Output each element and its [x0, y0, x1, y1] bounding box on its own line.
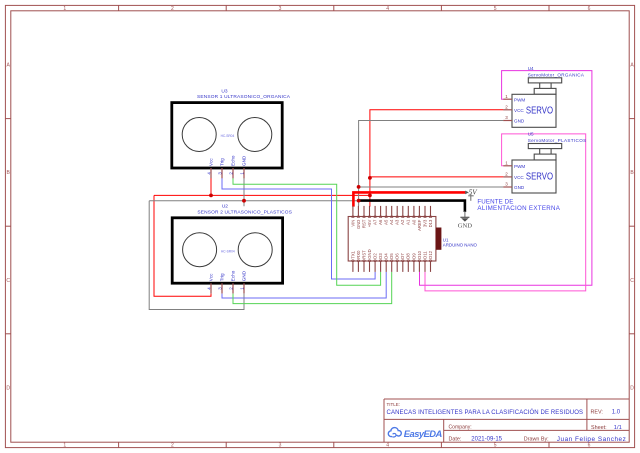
servo motor U4 (ServoMotor_ORGANICA)	[503, 66, 585, 127]
wire: U2 GND loop to GND bus	[149, 201, 244, 310]
wire: U1 GND pin up to U4 GND	[359, 121, 504, 207]
wire: U2 Trig to U1 D4 (blue)	[222, 272, 386, 298]
svg-text:U3: U3	[221, 88, 227, 94]
svg-text:4: 4	[386, 6, 389, 12]
svg-text:GND: GND	[514, 185, 525, 190]
svg-text:3: 3	[505, 182, 508, 187]
wire: U1 +5V pin up to U4 VCC	[370, 110, 504, 207]
svg-text:2: 2	[171, 443, 174, 449]
wire: +5V bus (sensors Vcc to U1 +5V pin)	[154, 194, 370, 196]
svg-text:Date:: Date:	[449, 437, 462, 443]
wire: U1 VIN to external +5V (thick red)	[353, 192, 465, 206]
svg-text:1/1: 1/1	[614, 425, 622, 431]
svg-text:A: A	[7, 63, 11, 69]
svg-text:CANECAS INTELIGENTES PARA LA C: CANECAS INTELIGENTES PARA LA CLASIFICACI…	[387, 409, 584, 416]
U1 usb connector	[436, 228, 442, 250]
svg-text:1.0: 1.0	[612, 410, 621, 416]
svg-text:Juan Felipe Sanchez: Juan Felipe Sanchez	[557, 436, 626, 443]
svg-text:Vcc: Vcc	[209, 158, 214, 166]
svg-text:5: 5	[494, 6, 497, 12]
wire: U3 GND down to GND bus	[243, 178, 245, 207]
svg-text:1: 1	[63, 443, 66, 449]
svg-text:5V: 5V	[469, 188, 479, 196]
junction (358.6,186.9)	[357, 185, 361, 189]
svg-text:Drawn By:: Drawn By:	[524, 437, 549, 443]
svg-text:D2: D2	[373, 253, 378, 259]
svg-text:C: C	[6, 278, 10, 284]
svg-text:ServoMotor_ORGANICA: ServoMotor_ORGANICA	[528, 72, 585, 77]
wire: GND bus (sensors)	[149, 200, 358, 202]
svg-text:D5: D5	[389, 253, 394, 259]
svg-text:+5V: +5V	[367, 220, 372, 228]
svg-text:D10: D10	[417, 250, 422, 258]
svg-text:3: 3	[279, 6, 282, 12]
junction (244,200.7)	[242, 199, 246, 203]
ultrasonic sensor U3 (SENSOR 1 ULTRASONICO_ORGANICA)	[172, 88, 291, 178]
svg-text:B: B	[7, 170, 11, 176]
svg-text:3V3: 3V3	[422, 219, 427, 227]
svg-text:Trig: Trig	[220, 158, 225, 166]
svg-text:VCC: VCC	[514, 175, 524, 180]
EasyEDA logo	[388, 428, 442, 439]
wire: GND to external GND flag (thick black)	[359, 201, 465, 212]
svg-text:ARDUINO NANO: ARDUINO NANO	[443, 242, 478, 247]
wire: U2 Echo to U1 D5 (green)	[233, 272, 392, 304]
svg-text:2: 2	[505, 105, 508, 110]
svg-text:D3: D3	[378, 253, 383, 259]
svg-text:SENSOR 1 ULTRASONICO_ORGANICA: SENSOR 1 ULTRASONICO_ORGANICA	[197, 94, 291, 100]
wire: +5V branch to U5 VCC	[370, 176, 504, 178]
svg-text:2021-09-15: 2021-09-15	[471, 437, 502, 443]
svg-text:U5: U5	[528, 132, 534, 137]
svg-text:D9: D9	[411, 253, 416, 259]
svg-text:EasyEDA: EasyEDA	[404, 428, 443, 439]
svg-text:B: B	[630, 170, 634, 176]
svg-text:GND: GND	[242, 270, 247, 281]
svg-text:AREF: AREF	[417, 219, 422, 231]
svg-text:GND: GND	[242, 155, 247, 166]
junction (211,195.4)	[209, 194, 213, 198]
junction (358.6,200.6)	[357, 199, 361, 203]
svg-text:D7: D7	[400, 253, 405, 259]
svg-text:A3: A3	[395, 219, 400, 225]
title block	[384, 399, 629, 442]
svg-text:RST: RST	[361, 219, 366, 228]
junction (369.9,177.9)	[368, 176, 372, 180]
svg-text:A7: A7	[373, 219, 378, 225]
svg-text:RX0: RX0	[356, 250, 361, 259]
ultrasonic sensor U2 (SENSOR 2 ULTRASONICO_PLASTICOS)	[172, 204, 292, 294]
wire: U5 PWM to U1 D11 (pink)	[425, 134, 586, 291]
svg-text:RST: RST	[361, 250, 366, 259]
svg-text:D11: D11	[422, 251, 427, 259]
svg-text:A5: A5	[384, 219, 389, 225]
svg-text:1: 1	[63, 6, 66, 12]
wire: GND branch to U5 GND	[359, 186, 504, 188]
svg-text:2: 2	[505, 172, 508, 177]
svg-text:SENSOR 2 ULTRASONICO_PLASTICOS: SENSOR 2 ULTRASONICO_PLASTICOS	[197, 209, 292, 215]
svg-text:HC-SR04: HC-SR04	[221, 249, 235, 253]
servo motor U5 (ServoMotor_PLASTICOS)	[503, 132, 586, 193]
svg-text:A2: A2	[400, 219, 405, 225]
svg-text:D13: D13	[428, 219, 433, 227]
svg-text:4: 4	[386, 443, 389, 449]
svg-text:VCC: VCC	[514, 108, 524, 113]
svg-text:2: 2	[171, 6, 174, 12]
wire: U2 Vcc loop to +5V bus	[154, 195, 211, 296]
svg-text:D: D	[630, 385, 634, 391]
svg-text:1: 1	[505, 94, 508, 99]
svg-text:GND: GND	[514, 119, 525, 124]
junction (369.9,195.4)	[368, 194, 372, 198]
wire: U3 Vcc to +5V bus	[210, 178, 212, 196]
svg-text:U4: U4	[528, 66, 534, 71]
svg-text:A6: A6	[378, 219, 383, 225]
wire: U3 Echo to U1 D3 (green)	[233, 178, 381, 285]
ground (external GND flag)	[458, 211, 473, 229]
svg-text:D12: D12	[428, 250, 433, 258]
svg-text:SERVO: SERVO	[526, 171, 553, 182]
wire: U4 PWM to U1 D10 (magenta)	[420, 71, 592, 286]
svg-text:PWM: PWM	[514, 97, 525, 102]
svg-text:5: 5	[494, 443, 497, 449]
svg-text:GND: GND	[458, 222, 473, 229]
svg-text:GND: GND	[367, 249, 372, 258]
svg-text:A4: A4	[389, 219, 394, 225]
svg-text:ALIMENTACION EXTERNA: ALIMENTACION EXTERNA	[477, 205, 560, 212]
svg-text:U2: U2	[222, 204, 228, 210]
svg-text:VIN: VIN	[350, 220, 355, 227]
svg-text:GND: GND	[356, 220, 361, 229]
svg-text:D8: D8	[406, 253, 411, 259]
svg-text:1: 1	[505, 161, 508, 166]
svg-text:3: 3	[505, 115, 508, 120]
svg-text:6: 6	[588, 443, 591, 449]
svg-text:C: C	[630, 278, 634, 284]
+5V power flag (FUENTE)	[465, 188, 478, 200]
svg-text:TX1: TX1	[350, 250, 355, 258]
svg-text:D: D	[6, 385, 10, 391]
svg-text:3: 3	[279, 443, 282, 449]
wire: U3 Trig to U1 D2 (blue)	[222, 178, 375, 279]
svg-text:HC-SR04: HC-SR04	[221, 134, 235, 138]
svg-text:A: A	[630, 63, 634, 69]
svg-text:Vcc: Vcc	[209, 273, 214, 281]
svg-text:ServoMotor_PLASTICOS: ServoMotor_PLASTICOS	[528, 138, 587, 143]
svg-text:Echo: Echo	[231, 155, 236, 166]
svg-text:Trig: Trig	[220, 273, 225, 281]
svg-text:Company:: Company:	[449, 424, 472, 430]
svg-text:D4: D4	[384, 253, 389, 259]
arduino nano U1	[348, 206, 477, 272]
svg-text:D6: D6	[395, 253, 400, 259]
svg-text:A0: A0	[411, 219, 416, 225]
svg-text:SERVO: SERVO	[526, 106, 553, 117]
svg-text:Sheet:: Sheet:	[591, 425, 607, 431]
svg-text:TITLE:: TITLE:	[387, 402, 401, 407]
svg-text:A1: A1	[406, 219, 411, 225]
svg-text:6: 6	[588, 6, 591, 12]
svg-text:REV:: REV:	[591, 410, 603, 416]
svg-text:PWM: PWM	[514, 164, 525, 169]
svg-text:Echo: Echo	[231, 270, 236, 281]
